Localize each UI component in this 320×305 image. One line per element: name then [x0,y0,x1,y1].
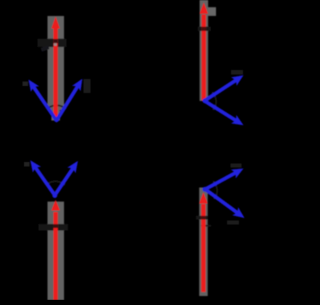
dark tick band BL [39,224,69,231]
grey shaft line TR [200,0,209,101]
tick notch TL [54,39,58,43]
grey shaft line BL [51,202,60,300]
tick knot BR [201,216,205,220]
grey rod BL [48,202,65,300]
blue arrow BR lower [205,189,244,218]
angle arc TR [212,92,216,110]
faint label left of TL left head [23,82,29,87]
faint label above BR upper head [231,164,242,168]
red arrow BR [199,192,207,292]
faint label below BR lower head [227,221,239,225]
angle arc BR [213,181,217,199]
blue arrow BL right [55,161,78,195]
blue arrow BL left [30,160,55,195]
dark tick band TR [198,27,211,31]
grey shaft line BR [199,188,208,297]
blue arrow TR lower [204,101,243,126]
faint label right of TL right head [84,79,91,93]
vertex dot TL [54,117,59,122]
dark thin line BR [201,225,211,227]
grey shaft line TL [51,16,60,121]
red arrow BL [51,200,59,300]
blue arrow TR upper [204,75,243,101]
red arrow TR [200,3,208,101]
red arrow TL [51,17,59,120]
grey rod TL [48,16,65,110]
tick knot TR [202,27,206,31]
dark diagonal mark TL [41,45,50,51]
angle arc TL [47,105,66,109]
blue arrow TL right [57,79,83,121]
vertex dot TR [202,98,207,103]
grey block label TR [207,7,216,16]
faint label left of BL left head [24,162,30,167]
dark tick band TL [38,39,67,47]
angle arc BL [46,181,65,185]
tick knot BL [53,224,57,228]
dark tick band BR [196,216,208,220]
vertex dot BL [52,193,57,198]
blue arrow BR upper [205,169,243,190]
vertex dot BR [202,187,207,192]
faint label above TR upper head [231,70,243,75]
blue arrow TL left [29,80,57,121]
